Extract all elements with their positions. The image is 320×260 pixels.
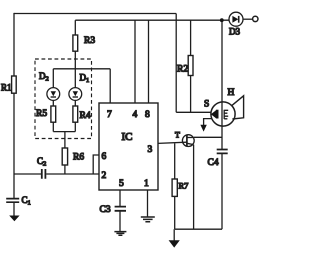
wire drop of rail A joining rail B and down to speaker feed (175, 14, 177, 113)
wire drop from pin3 line to R7 (174, 143, 176, 179)
svg-text:T: T (175, 131, 180, 140)
sounder S inner armature glyph (216, 110, 219, 119)
LED D3 (229, 12, 243, 26)
terminal circle (253, 16, 258, 21)
wire C1 to ground arrow (13, 202, 15, 216)
wire rail B horizontal y=20 from R3 to D3 (75, 19, 229, 21)
wire D2 top stub (52, 69, 54, 88)
wire sounder/C4 vertical from rail B (221, 20, 223, 149)
wire join of R5/R4 at y=131.6 (53, 131, 75, 133)
ground below C3 (114, 232, 126, 236)
wire R3 bottom down to D1 through node at y=69 (74, 51, 76, 87)
resistor R3 (73, 35, 78, 51)
wire pin2 line right segment to IC (46, 173, 99, 175)
svg-text:D2: D2 (39, 71, 49, 83)
sounder gate arrow (204, 119, 212, 126)
wire R6 bottom to pin2 line (64, 165, 66, 174)
wire pin2 line left segment to C2 (14, 173, 41, 175)
capacitor C1 (6, 199, 19, 203)
wire T emitter down to bottom rail (193, 145, 195, 230)
wire D3 to terminal (243, 18, 253, 20)
svg-text:R3: R3 (84, 36, 95, 46)
capacitor C4 (217, 150, 228, 154)
resistor R4 (73, 106, 78, 122)
resistor R1 (12, 76, 17, 93)
svg-text:C4: C4 (208, 158, 219, 168)
IC U1 (99, 103, 158, 190)
sounder S (211, 102, 235, 126)
wire C4 bottom to bottom rail (221, 153, 223, 229)
wire pin 4 riser to rail B (134, 20, 136, 103)
dashed sensor box (35, 59, 92, 139)
svg-text:IC: IC (122, 131, 133, 143)
svg-text:7: 7 (107, 110, 112, 120)
svg-text:6: 6 (102, 152, 107, 162)
wire R2 riser from rail B (190, 20, 192, 55)
ground arrow bottom (169, 240, 180, 247)
capacitor C2 (42, 169, 46, 179)
svg-text:C1: C1 (22, 195, 31, 207)
ground arrow below C1 (9, 216, 19, 222)
svg-text:R6: R6 (73, 153, 84, 163)
svg-text:C2: C2 (37, 156, 46, 168)
wire left rail below R1 (13, 93, 15, 198)
ground below pin 1 (141, 217, 155, 222)
wire pin 8 riser to rail B (148, 20, 150, 103)
svg-text:R7: R7 (179, 181, 189, 191)
svg-text:C3: C3 (100, 205, 111, 215)
svg-text:D3: D3 (229, 27, 240, 37)
svg-text:8: 8 (145, 110, 150, 120)
resistor R2 (188, 56, 193, 76)
wire node line y=69 from D2 to pin7 riser (53, 68, 110, 70)
wire R5 bottom (52, 122, 54, 131)
wire D2 to R5 (52, 100, 54, 106)
svg-text:R1: R1 (1, 83, 12, 93)
wire bottom rail (175, 228, 222, 230)
wire R4 bottom (74, 122, 76, 131)
wire D1 to R4 (74, 100, 76, 106)
wire R7 bottom to bottom rail (174, 196, 176, 229)
wire pin 6 stub and drop to pin2 line (93, 155, 99, 174)
horn H (232, 96, 244, 119)
wire R2 bottom to sounder feed (190, 76, 192, 113)
wire pin 7 riser (109, 69, 111, 103)
svg-text:H: H (228, 88, 235, 98)
photodiode D1 (69, 88, 82, 101)
svg-text:5: 5 (119, 179, 124, 189)
wire T collector to C4 node (194, 136, 222, 138)
wire pin 1 down to ground (147, 190, 149, 217)
resistor R6 (62, 148, 67, 165)
wire drop to R6 (64, 132, 66, 148)
wire pin 3 to transistor base (158, 142, 187, 143)
wire C3 to ground (119, 211, 121, 232)
photodiode D2 (47, 88, 60, 101)
node A junction dot on rail B (220, 18, 224, 22)
svg-text:S: S (204, 100, 209, 110)
svg-text:2: 2 (102, 171, 107, 181)
svg-text:4: 4 (133, 110, 138, 120)
svg-text:R4: R4 (80, 111, 91, 121)
transistor T (182, 135, 194, 147)
wire top rail A from left corner to drop at x=176 (14, 13, 176, 15)
capacitor C3 (115, 207, 126, 211)
svg-text:D1: D1 (80, 73, 90, 85)
svg-text:1: 1 (144, 179, 149, 189)
resistor R5 (51, 106, 56, 122)
svg-text:R5: R5 (36, 109, 47, 119)
svg-text:3: 3 (148, 145, 153, 155)
resistor R7 (172, 179, 177, 196)
svg-text:R2: R2 (177, 65, 188, 75)
wire R3 top stub (74, 20, 76, 35)
wire stub to ground arrow (173, 229, 175, 240)
wire pin 5 down to C3 (119, 190, 121, 206)
wire horizontal feed into sounder S at y=112 (176, 111, 211, 113)
wire left rail vertical x=14 (13, 13, 15, 76)
